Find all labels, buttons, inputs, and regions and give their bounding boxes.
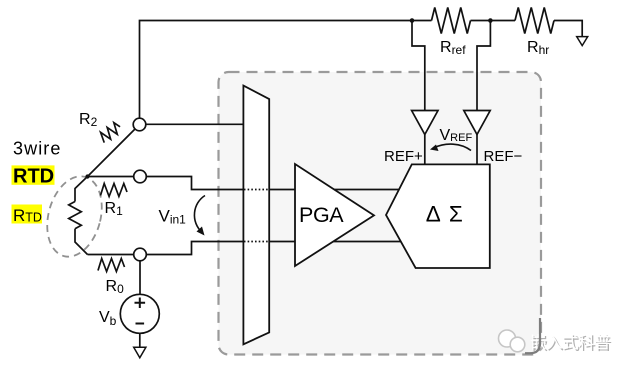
svg-text:PGA: PGA bbox=[299, 203, 344, 227]
svg-text:RTD: RTD bbox=[13, 165, 54, 187]
svg-text:REF−: REF− bbox=[484, 148, 523, 165]
svg-text:嵌入式科普: 嵌入式科普 bbox=[530, 333, 610, 352]
svg-text:REF+: REF+ bbox=[384, 148, 423, 165]
svg-text:3wire: 3wire bbox=[13, 139, 62, 159]
